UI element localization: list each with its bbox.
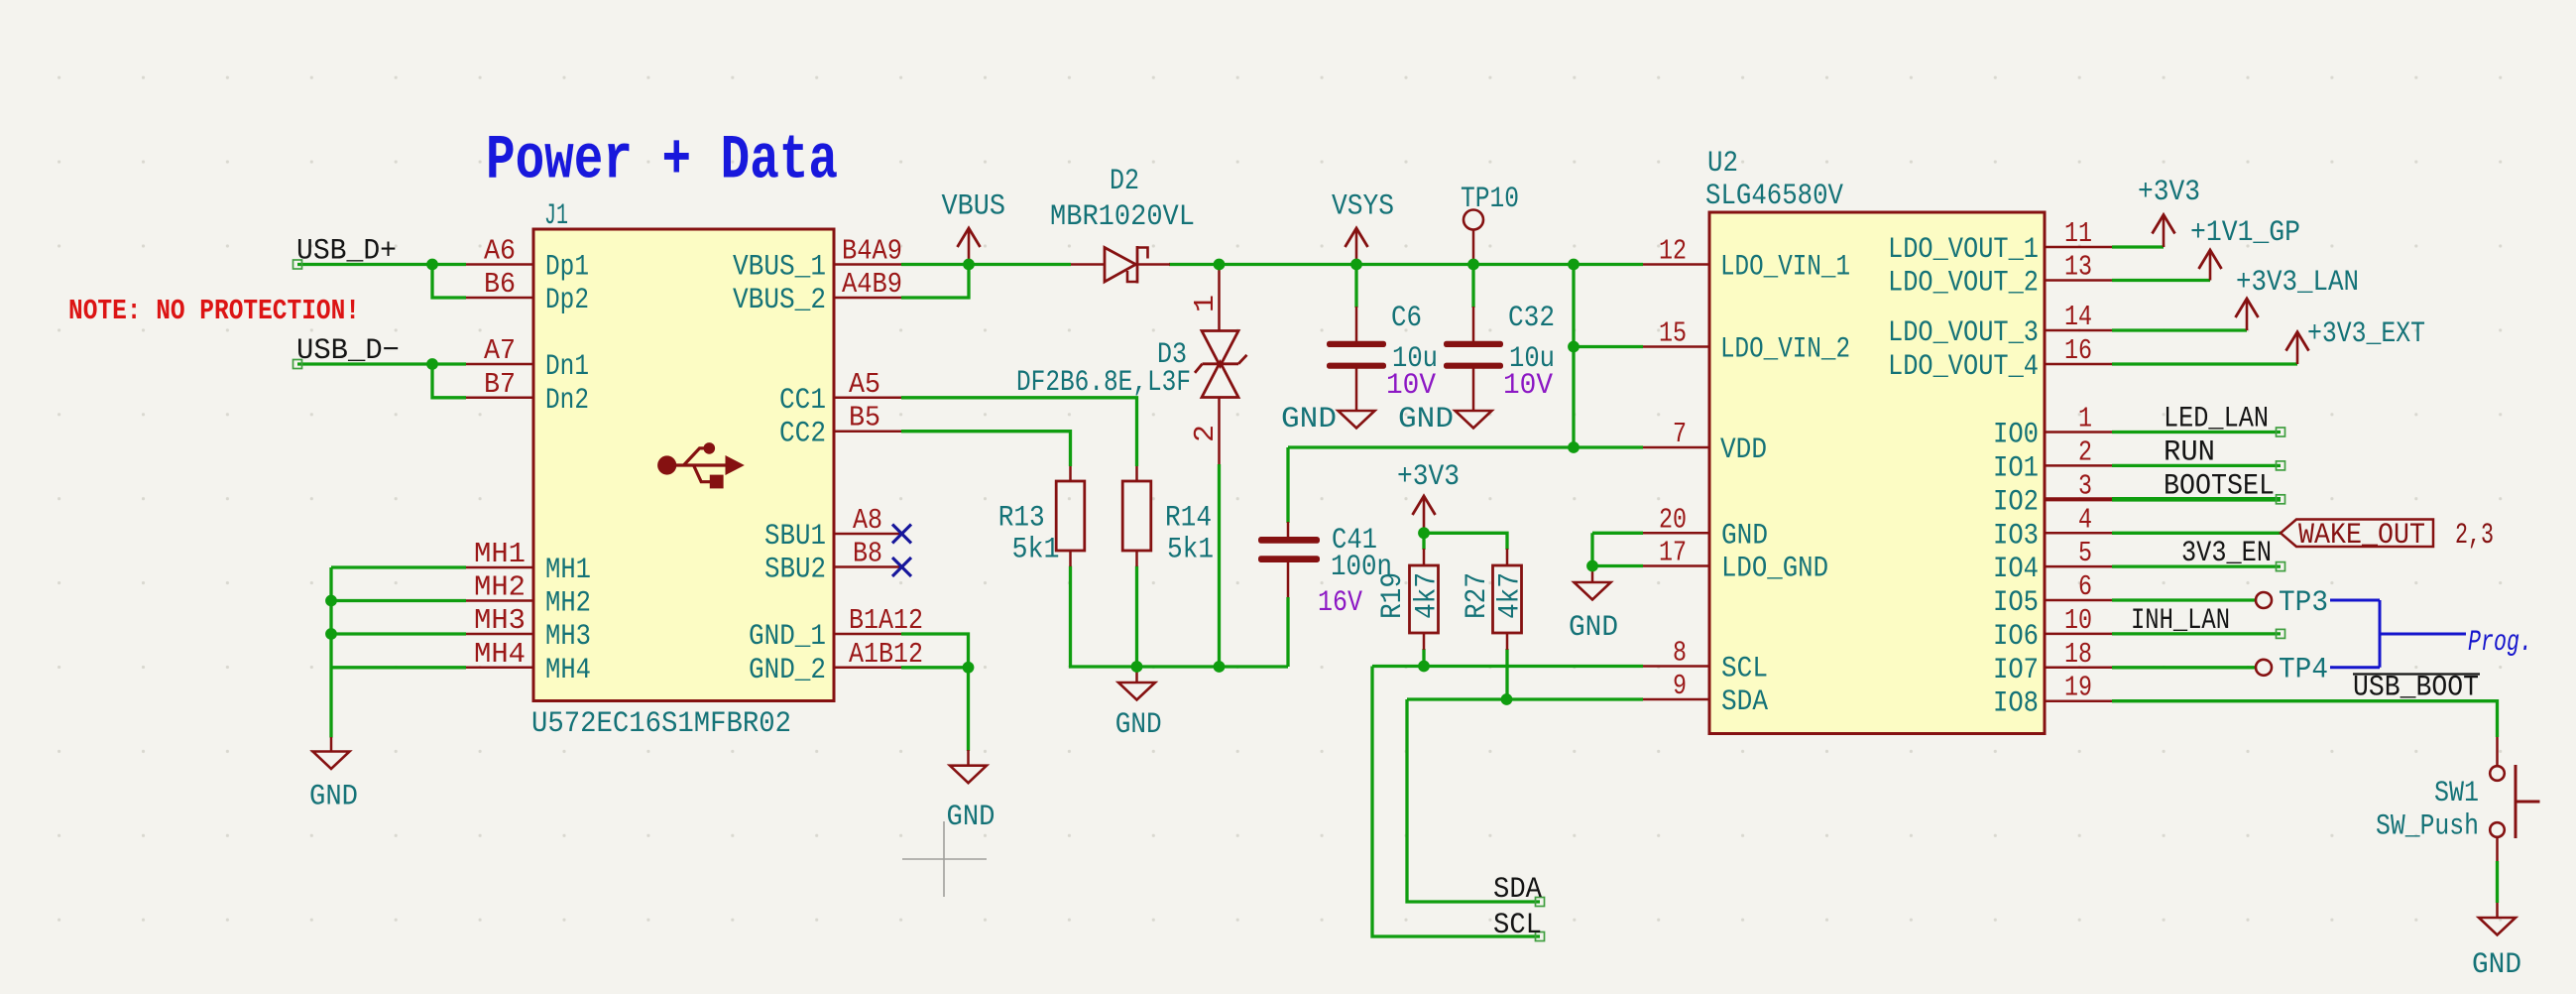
svg-text:11: 11 (2064, 217, 2092, 250)
svg-text:17: 17 (1659, 537, 1687, 569)
svg-text:A8: A8 (853, 504, 882, 537)
svg-text:13: 13 (2064, 251, 2092, 284)
svg-text:MH4: MH4 (474, 638, 526, 671)
svg-text:5k1: 5k1 (1012, 532, 1060, 565)
svg-text:IO1: IO1 (1993, 450, 2039, 484)
svg-text:+3V3: +3V3 (2138, 175, 2200, 208)
svg-text:TP10: TP10 (1461, 182, 1519, 215)
svg-text:B5: B5 (849, 402, 880, 435)
svg-text:GND_1: GND_1 (749, 619, 826, 653)
svg-text:+3V3: +3V3 (1397, 459, 1460, 493)
svg-text:USB_BOOT: USB_BOOT (2353, 671, 2479, 704)
svg-text:2: 2 (1189, 425, 1222, 442)
svg-text:SCL: SCL (1721, 652, 1768, 685)
svg-text:GND: GND (947, 800, 995, 833)
svg-text:12: 12 (1659, 235, 1687, 268)
svg-text:B4A9: B4A9 (842, 235, 902, 268)
svg-text:SLG46580V: SLG46580V (1705, 179, 1843, 212)
svg-text:VBUS_1: VBUS_1 (733, 250, 826, 284)
svg-text:J1: J1 (544, 198, 568, 232)
svg-text:R27: R27 (1460, 572, 1493, 619)
svg-text:+3V3_LAN: +3V3_LAN (2236, 265, 2359, 299)
svg-text:D2: D2 (1110, 164, 1139, 197)
svg-text:GND: GND (2472, 947, 2521, 981)
svg-text:R13: R13 (998, 501, 1045, 535)
svg-text:INH_LAN: INH_LAN (2131, 603, 2230, 637)
svg-text:SW1: SW1 (2434, 776, 2479, 809)
svg-text:LDO_VOUT_4: LDO_VOUT_4 (1888, 349, 2039, 383)
svg-text:SBU2: SBU2 (764, 553, 826, 586)
svg-text:A7: A7 (484, 334, 516, 367)
svg-text:LDO_VOUT_1: LDO_VOUT_1 (1888, 232, 2039, 266)
svg-text:A6: A6 (484, 235, 516, 268)
svg-text:7: 7 (1673, 418, 1687, 450)
svg-text:BOOTSEL: BOOTSEL (2164, 468, 2275, 502)
svg-text:TP4: TP4 (2279, 653, 2328, 686)
svg-text:4: 4 (2078, 503, 2092, 536)
svg-text:C6: C6 (1391, 301, 1422, 334)
svg-text:USB_D+: USB_D+ (296, 234, 397, 268)
svg-text:VDD: VDD (1720, 433, 1767, 466)
svg-text:A1B12: A1B12 (849, 638, 923, 671)
svg-text:B6: B6 (484, 268, 516, 301)
svg-text:GND: GND (1281, 402, 1337, 435)
svg-text:5: 5 (2078, 537, 2092, 569)
svg-text:IO6: IO6 (1993, 619, 2039, 653)
svg-text:10: 10 (2064, 604, 2092, 637)
svg-text:Power + Data: Power + Data (486, 126, 838, 197)
svg-text:U572EC16S1MFBR02: U572EC16S1MFBR02 (531, 706, 791, 740)
svg-text:4k7: 4k7 (1410, 572, 1444, 619)
svg-text:8: 8 (1673, 637, 1687, 670)
svg-text:IO2: IO2 (1993, 484, 2039, 518)
svg-text:6: 6 (2078, 570, 2092, 603)
svg-text:NOTE: NO PROTECTION!: NOTE: NO PROTECTION! (68, 295, 360, 327)
svg-text:3: 3 (2078, 469, 2092, 502)
svg-text:SW_Push: SW_Push (2376, 809, 2479, 843)
svg-text:18: 18 (2064, 638, 2092, 671)
svg-text:GND: GND (1398, 402, 1454, 435)
svg-text:WAKE_OUT: WAKE_OUT (2298, 518, 2425, 552)
svg-text:14: 14 (2064, 301, 2092, 333)
svg-text:MH1: MH1 (545, 553, 591, 586)
svg-text:MH1: MH1 (474, 538, 526, 570)
svg-text:9: 9 (1673, 670, 1687, 702)
svg-text:2,3: 2,3 (2455, 518, 2494, 552)
svg-text:3V3_EN: 3V3_EN (2181, 536, 2272, 569)
svg-text:RUN: RUN (2164, 435, 2215, 468)
svg-text:C32: C32 (1508, 301, 1555, 334)
svg-text:Dp1: Dp1 (545, 250, 589, 284)
svg-text:10V: 10V (1386, 368, 1436, 402)
svg-text:LDO_VIN_2: LDO_VIN_2 (1720, 332, 1850, 366)
svg-text:MH4: MH4 (545, 653, 591, 686)
svg-text:2: 2 (2078, 435, 2092, 468)
svg-text:Dn2: Dn2 (545, 383, 589, 417)
svg-text:DF2B6.8E,L3F: DF2B6.8E,L3F (1016, 365, 1191, 399)
svg-text:IO3: IO3 (1993, 518, 2039, 552)
svg-text:VBUS: VBUS (942, 189, 1006, 223)
svg-text:B7: B7 (484, 368, 516, 401)
svg-text:1: 1 (1189, 295, 1222, 312)
svg-text:+1V1_GP: +1V1_GP (2190, 215, 2300, 249)
svg-text:SDA: SDA (1721, 684, 1768, 718)
svg-text:GND_2: GND_2 (749, 653, 826, 686)
svg-text:16: 16 (2064, 334, 2092, 367)
svg-text:CC2: CC2 (779, 417, 826, 450)
svg-text:A5: A5 (849, 368, 880, 401)
svg-text:U2: U2 (1707, 146, 1738, 180)
svg-text:16V: 16V (1318, 585, 1362, 619)
svg-text:GND: GND (1115, 707, 1162, 741)
svg-text:MH3: MH3 (474, 604, 526, 637)
svg-text:MH2: MH2 (474, 571, 526, 604)
svg-text:B8: B8 (853, 538, 882, 570)
svg-text:MH3: MH3 (545, 619, 591, 653)
svg-text:LDO_VOUT_3: LDO_VOUT_3 (1888, 315, 2039, 349)
svg-text:SBU1: SBU1 (764, 519, 826, 553)
svg-text:15: 15 (1659, 317, 1687, 350)
svg-text:4k7: 4k7 (1493, 572, 1527, 619)
svg-text:+3V3_EXT: +3V3_EXT (2307, 316, 2425, 350)
svg-text:A4B9: A4B9 (842, 268, 902, 301)
svg-text:20: 20 (1659, 503, 1687, 536)
svg-text:Dn1: Dn1 (545, 349, 589, 383)
svg-text:R14: R14 (1165, 501, 1212, 535)
svg-text:VBUS_2: VBUS_2 (733, 283, 826, 316)
svg-text:GND: GND (1569, 610, 1618, 644)
svg-text:LDO_VOUT_2: LDO_VOUT_2 (1888, 266, 2039, 300)
svg-text:1: 1 (2078, 403, 2092, 435)
svg-text:Dp2: Dp2 (545, 283, 589, 316)
svg-text:R19: R19 (1375, 572, 1409, 619)
svg-text:LDO_VIN_1: LDO_VIN_1 (1720, 250, 1850, 284)
svg-text:SCL: SCL (1493, 908, 1542, 941)
svg-text:USB_D−: USB_D− (296, 333, 400, 367)
svg-text:CC1: CC1 (779, 383, 826, 417)
svg-text:SDA: SDA (1493, 872, 1542, 906)
svg-text:19: 19 (2064, 672, 2092, 704)
svg-text:IO4: IO4 (1993, 552, 2039, 585)
svg-text:GND: GND (309, 780, 358, 813)
svg-text:MH2: MH2 (545, 586, 591, 620)
svg-text:VSYS: VSYS (1332, 189, 1394, 223)
svg-text:LED_LAN: LED_LAN (2164, 402, 2269, 435)
svg-text:TP3: TP3 (2279, 585, 2328, 619)
svg-text:GND: GND (1721, 518, 1768, 552)
svg-text:Prog.: Prog. (2468, 625, 2532, 659)
svg-text:IO7: IO7 (1993, 653, 2039, 686)
svg-text:IO5: IO5 (1993, 585, 2039, 619)
svg-text:MBR1020VL: MBR1020VL (1050, 199, 1195, 233)
svg-text:10V: 10V (1503, 368, 1553, 402)
svg-text:5k1: 5k1 (1167, 532, 1214, 565)
svg-text:B1A12: B1A12 (849, 604, 923, 637)
svg-text:IO8: IO8 (1993, 686, 2039, 720)
svg-text:IO0: IO0 (1993, 418, 2039, 451)
svg-text:LDO_GND: LDO_GND (1721, 552, 1828, 585)
